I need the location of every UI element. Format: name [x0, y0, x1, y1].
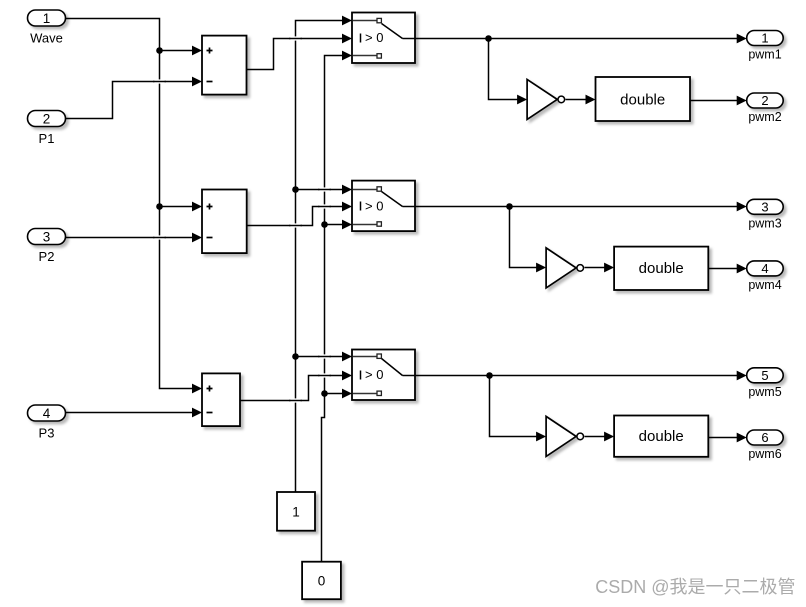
- svg-text:1: 1: [761, 31, 768, 46]
- arrow into pwm2: [737, 96, 747, 106]
- svg-text:4: 4: [761, 261, 768, 276]
- watermark CSDN: [595, 577, 795, 597]
- NOT gate N3: [546, 416, 583, 456]
- arrow into SW3 control: [342, 371, 352, 381]
- outport pwm2: [747, 93, 784, 124]
- svg-text:Wave: Wave: [30, 31, 63, 46]
- arrow into NOT1: [517, 95, 527, 105]
- svg-text:2: 2: [43, 112, 51, 127]
- arrow into S3 plus: [192, 384, 202, 394]
- arrow into NOT3: [536, 432, 546, 442]
- wire double3 to pwm6: [709, 437, 738, 439]
- wire branch to NOT3: [490, 376, 538, 437]
- arrow into pwm4: [737, 264, 747, 274]
- svg-text:pwm2: pwm2: [748, 110, 781, 124]
- junction Wave to S1: [156, 47, 163, 54]
- svg-text:pwm1: pwm1: [748, 48, 781, 62]
- svg-text:P3: P3: [39, 426, 55, 441]
- wire P2 net: [66, 237, 194, 239]
- arrow into pwm6: [737, 433, 747, 443]
- svg-text:pwm4: pwm4: [748, 278, 781, 292]
- svg-text:double: double: [639, 428, 684, 445]
- arrow into NOT2: [536, 263, 546, 273]
- arrow into pwm5: [737, 371, 747, 381]
- wire Wave net: [66, 19, 194, 389]
- data type conversion double1: [596, 77, 691, 121]
- junction constant-0 to SW2: [321, 221, 328, 228]
- arrow into double2: [604, 263, 614, 273]
- outport pwm1: [747, 31, 784, 62]
- wire S1 output to SW1 control: [247, 39, 344, 70]
- arrow into S1 plus: [192, 46, 202, 56]
- arrow into SW3 top: [342, 352, 352, 362]
- arrow into SW1 control: [342, 34, 352, 44]
- arrow into S1 minus: [192, 77, 202, 87]
- svg-text:6: 6: [761, 430, 768, 445]
- NOT gate N1: [527, 79, 565, 119]
- arrow into S2 minus: [192, 233, 202, 243]
- junction constant-1 to SW2: [292, 186, 299, 193]
- outport pwm5: [747, 368, 784, 399]
- outport pwm6: [747, 430, 784, 461]
- svg-text:> 0: > 0: [365, 30, 383, 45]
- inport 3 P2: [28, 229, 66, 265]
- wire NOT3 to double3: [585, 436, 607, 438]
- wire SW2 output to pwm3: [416, 206, 738, 208]
- svg-text:double: double: [620, 91, 665, 108]
- svg-text:1: 1: [292, 505, 300, 520]
- wire constant-1 bus: [296, 21, 344, 493]
- wire double1 to pwm2: [691, 100, 738, 102]
- outport pwm4: [747, 261, 784, 292]
- wire P3 net: [66, 412, 194, 414]
- arrow into S2 plus: [192, 202, 202, 212]
- outport pwm3: [747, 199, 784, 230]
- wire NOT1 to double1: [566, 99, 588, 101]
- junction constant-1 to SW3: [292, 353, 299, 360]
- junction SW3 output branch: [486, 372, 493, 379]
- svg-text:3: 3: [43, 230, 51, 245]
- wire double2 to pwm4: [709, 268, 738, 270]
- arrow into SW2 bottom: [342, 220, 352, 230]
- switch SW1: [352, 13, 416, 64]
- svg-text:4: 4: [43, 406, 51, 421]
- svg-text:3: 3: [761, 200, 768, 215]
- inport 2 P1: [28, 111, 66, 147]
- switch SW2: [352, 181, 416, 232]
- junction SW1 output branch: [485, 35, 492, 42]
- svg-text:2: 2: [761, 93, 768, 108]
- arrow into S3 minus: [192, 408, 202, 418]
- wire S2 output to SW2 control: [247, 207, 344, 226]
- svg-text:pwm6: pwm6: [748, 447, 781, 461]
- wire SW1 output to pwm1: [416, 38, 738, 40]
- wire branch to NOT2: [510, 207, 538, 268]
- NOT gate N2: [546, 248, 583, 288]
- svg-text:> 0: > 0: [365, 367, 383, 382]
- wire P1 net: [66, 82, 194, 119]
- arrow into SW2 top: [342, 185, 352, 195]
- svg-text:1: 1: [43, 11, 51, 26]
- svg-text:pwm5: pwm5: [748, 385, 781, 399]
- junction Wave to S2: [156, 203, 163, 210]
- wire S3 output to SW3 control: [241, 376, 344, 401]
- junction constant-0 to SW3: [321, 390, 328, 397]
- arrow into SW1 bottom: [342, 51, 352, 61]
- arrow into double3: [604, 432, 614, 442]
- inport 1 Wave: [28, 10, 66, 46]
- inport 4 P3: [28, 405, 66, 441]
- wire NOT2 to double2: [585, 267, 607, 269]
- sum S1: [202, 36, 247, 95]
- junction SW2 output branch: [506, 203, 513, 210]
- data type conversion double2: [614, 247, 708, 290]
- arrow into double1: [586, 95, 596, 105]
- svg-text:> 0: > 0: [365, 198, 383, 213]
- switch SW3: [352, 350, 416, 401]
- constant block 1: [277, 492, 315, 531]
- wire branch to NOT1: [489, 39, 519, 100]
- svg-text:5: 5: [761, 368, 768, 383]
- svg-text:P1: P1: [39, 131, 55, 146]
- svg-text:P2: P2: [39, 249, 55, 264]
- data type conversion double3: [614, 416, 708, 457]
- svg-text:CSDN @我是一只二极管: CSDN @我是一只二极管: [595, 577, 795, 597]
- arrow into pwm3: [737, 202, 747, 212]
- svg-text:0: 0: [318, 574, 326, 589]
- sum S3: [202, 373, 240, 426]
- arrow into SW3 bottom: [342, 389, 352, 399]
- constant block 0: [302, 562, 341, 600]
- svg-text:pwm3: pwm3: [748, 216, 781, 230]
- sum S2: [202, 190, 247, 254]
- wire constant-0 bus: [322, 56, 344, 562]
- svg-text:double: double: [639, 260, 684, 277]
- wire SW3 output to pwm5: [416, 375, 738, 377]
- arrow into SW1 top: [342, 16, 352, 26]
- arrow into SW2 control: [342, 202, 352, 212]
- arrow into pwm1: [737, 34, 747, 44]
- wire crossovers (white halo gaps): [153, 39, 331, 401]
